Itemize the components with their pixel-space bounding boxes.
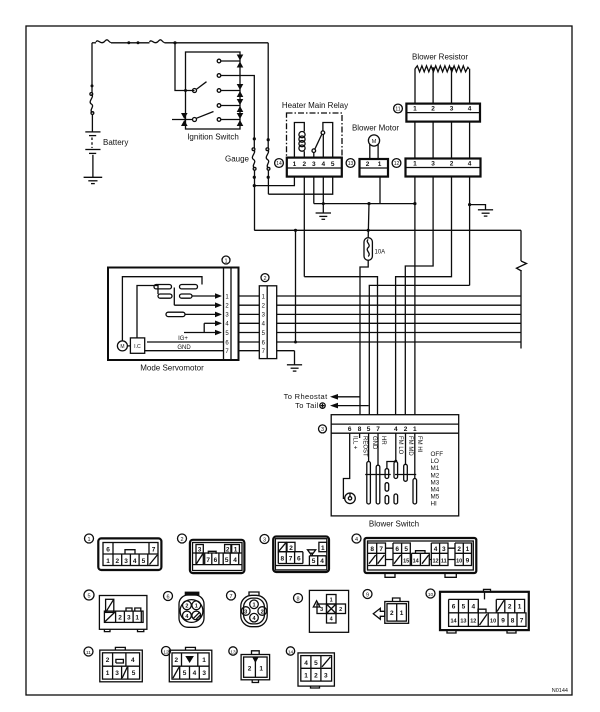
svg-text:M4: M4: [431, 487, 440, 494]
svg-text:1: 1: [224, 258, 227, 264]
svg-text:7: 7: [152, 547, 156, 554]
svg-text:3: 3: [124, 558, 128, 565]
svg-text:1: 1: [259, 666, 263, 673]
label circle connector 6: [164, 592, 173, 601]
switch pin stubs: [359, 433, 361, 438]
label circle 2: [261, 274, 269, 282]
switch arm row 5: [193, 118, 197, 122]
svg-text:5: 5: [314, 660, 318, 667]
servo arrow row4: [204, 322, 215, 324]
label circle 12: [392, 159, 401, 168]
svg-text:3: 3: [324, 673, 328, 680]
relay switch contact (pins 3-4-5): [313, 153, 315, 158]
svg-text:10: 10: [490, 619, 496, 625]
svg-text:7: 7: [229, 594, 232, 600]
connector 11 housing: [115, 647, 125, 650]
blower switch pin strip lines: [331, 424, 459, 433]
svg-text:1: 1: [106, 670, 110, 677]
label circle connector 3: [260, 535, 269, 544]
label circle connector 8: [294, 594, 303, 603]
svg-text:4: 4: [133, 558, 137, 565]
svg-text:4: 4: [468, 106, 472, 113]
wire motor junction down to fuse: [367, 204, 370, 238]
connector bowtie row 3: [237, 84, 244, 97]
svg-text:3: 3: [263, 538, 266, 544]
svg-text:12: 12: [394, 161, 400, 167]
wire gauge A to relay pin1: [254, 177, 294, 186]
blower motor M: [368, 135, 379, 146]
svg-text:5: 5: [225, 557, 229, 564]
blower motor leads: [370, 144, 378, 159]
svg-text:6: 6: [166, 595, 169, 601]
relay ground: [316, 212, 331, 214]
svg-text:2: 2: [180, 537, 183, 543]
svg-text:12: 12: [163, 650, 169, 656]
svg-text:2: 2: [115, 558, 119, 565]
svg-text:1: 1: [321, 545, 325, 552]
relay pin4 wire to ground: [322, 177, 324, 213]
main feed bus y230: [254, 229, 521, 231]
svg-text:11: 11: [441, 559, 447, 565]
svg-text:1: 1: [293, 161, 297, 168]
svg-text:4: 4: [233, 557, 237, 564]
resistor connector 11 box: [406, 104, 480, 122]
label circle 13: [346, 159, 355, 168]
label circle connector 2: [178, 534, 187, 543]
switch contact bars: [367, 462, 371, 505]
battery ground: [84, 176, 103, 178]
svg-text:2: 2: [106, 657, 110, 664]
svg-text:6: 6: [395, 546, 399, 553]
svg-text:M: M: [372, 139, 377, 145]
connector 12 housing: [186, 647, 196, 650]
svg-text:6: 6: [348, 426, 352, 433]
svg-text:2: 2: [248, 666, 252, 673]
svg-text:3: 3: [115, 670, 119, 677]
label circle connector 11: [84, 647, 93, 656]
svg-text:4: 4: [394, 426, 398, 433]
svg-text:6: 6: [214, 557, 218, 564]
svg-text:1: 1: [413, 426, 417, 433]
label circle connector 13: [229, 647, 237, 655]
svg-text:2: 2: [118, 614, 122, 621]
link rows 4-5: [203, 323, 205, 332]
motor pin1 wire down: [379, 177, 381, 204]
servo connector strip 1 lines: [224, 268, 232, 361]
resistor tap wires down to connector 11: [415, 69, 470, 104]
svg-text:4: 4: [471, 604, 475, 611]
svg-text:Gauge: Gauge: [225, 155, 250, 164]
svg-text:2: 2: [457, 546, 461, 553]
label circle connector 14: [286, 647, 294, 655]
blower resistor zigzag: [415, 66, 469, 72]
row 7 GND stub: [277, 350, 295, 352]
connector 4 housing: [365, 538, 477, 573]
svg-text:1: 1: [87, 537, 90, 543]
ignition switch contact row 5: [217, 118, 221, 122]
servo arrow row2: [174, 288, 215, 306]
svg-text:Ignition Switch: Ignition Switch: [187, 133, 239, 142]
svg-text:14: 14: [276, 161, 282, 167]
svg-text:7: 7: [376, 426, 380, 433]
svg-text:2: 2: [185, 604, 188, 610]
svg-text:7: 7: [379, 546, 383, 553]
svg-text:10: 10: [456, 559, 462, 565]
connector 14 housing: [298, 653, 334, 686]
ignition switch contact row 3: [217, 89, 221, 93]
svg-text:3: 3: [431, 161, 435, 168]
svg-text:Blower Motor: Blower Motor: [352, 124, 399, 133]
svg-text:4: 4: [434, 546, 438, 553]
svg-text:FM MD: FM MD: [407, 436, 413, 456]
resistor pin4 ground branch: [469, 177, 471, 286]
svg-text:14: 14: [413, 559, 420, 565]
battery feed wire vertical: [91, 43, 93, 93]
svg-text:1: 1: [202, 657, 206, 664]
svg-text:8: 8: [511, 618, 515, 625]
label circle 3: [319, 425, 327, 433]
label circle connector 1: [85, 534, 94, 543]
svg-text:2: 2: [366, 161, 370, 168]
svg-text:14: 14: [288, 650, 294, 656]
resistor connector 12 box: [406, 159, 481, 177]
illumination lamp wire: [343, 433, 349, 498]
svg-text:1: 1: [304, 673, 308, 680]
label circle 14: [275, 159, 284, 168]
heater main relay dash-dot box: [287, 113, 343, 158]
left stub wire with bowtie: [172, 119, 193, 121]
svg-text:15: 15: [403, 559, 409, 565]
wire gauge B to relay pin5: [268, 177, 332, 195]
svg-text:1: 1: [413, 161, 417, 168]
servo internal wiring: [122, 277, 202, 341]
svg-text:LO: LO: [431, 458, 440, 465]
gauge fuse B: [267, 43, 269, 149]
blower switch box: [331, 415, 459, 516]
svg-text:4: 4: [320, 558, 324, 565]
svg-text:4: 4: [321, 161, 325, 168]
relay pin3 wire to ground join: [313, 177, 315, 204]
ignition switch box: [186, 52, 241, 129]
svg-text:13: 13: [348, 161, 354, 167]
svg-text:OFF: OFF: [431, 451, 444, 458]
ignition switch feed wire: [175, 43, 195, 91]
svg-text:M5: M5: [431, 494, 440, 501]
svg-text:1: 1: [330, 598, 333, 604]
label circle connector 9: [363, 590, 372, 599]
svg-text:5: 5: [183, 670, 187, 677]
svg-text:2: 2: [431, 106, 435, 113]
battery symbol: [85, 131, 100, 133]
svg-text:1: 1: [234, 547, 238, 554]
svg-text:2: 2: [289, 545, 293, 552]
svg-text:HI: HI: [431, 501, 438, 508]
svg-text:8: 8: [370, 546, 374, 553]
label circle connector 7: [227, 591, 236, 600]
servo IG+ row: [147, 341, 224, 343]
svg-text:9: 9: [501, 618, 505, 625]
svg-text:6: 6: [297, 556, 301, 563]
svg-text:3: 3: [320, 607, 323, 613]
connector bowtie row 1: [237, 55, 244, 68]
bus wires rows 1-6 to right: [277, 296, 521, 342]
svg-text:12: 12: [432, 559, 438, 565]
label circle 11: [394, 104, 403, 113]
svg-text:5: 5: [331, 161, 335, 168]
servo arrow row5: [184, 332, 215, 334]
svg-text:4: 4: [468, 161, 472, 168]
connector 6 housing (round): [185, 592, 200, 596]
svg-text:3: 3: [202, 670, 206, 677]
svg-text:3: 3: [321, 427, 324, 433]
svg-text:FM LO: FM LO: [397, 436, 403, 455]
connector 9 housing: [393, 598, 401, 602]
svg-text:1: 1: [413, 106, 417, 113]
ground (resistor): [478, 209, 493, 211]
connector 5 housing: [99, 596, 146, 630]
label circle connector 4: [352, 534, 361, 543]
svg-text:13: 13: [230, 650, 236, 656]
svg-text:5: 5: [404, 546, 408, 553]
staircase wire 433 to switch pin2: [405, 177, 433, 415]
svg-text:8: 8: [358, 426, 362, 433]
wires connector 11 to 12: [415, 122, 470, 159]
svg-text:M: M: [120, 344, 124, 350]
svg-text:M1: M1: [431, 465, 440, 472]
connector 7 housing (oval): [249, 592, 259, 595]
svg-text:3: 3: [312, 161, 316, 168]
resistor pin1 wire straight down to switch pin1: [414, 177, 416, 415]
svg-text:REOST: REOST: [362, 436, 368, 457]
svg-text:5: 5: [132, 670, 136, 677]
svg-text:1: 1: [378, 161, 382, 168]
motor connector 13 box: [360, 159, 389, 177]
svg-text:8: 8: [296, 597, 299, 603]
switch arm row 3: [193, 89, 197, 93]
servo IC box: [130, 338, 144, 353]
svg-text:IG+: IG+: [178, 336, 188, 342]
svg-text:4: 4: [193, 670, 197, 677]
svg-text:Heater Main Relay: Heater Main Relay: [282, 101, 348, 110]
servo arrow row1: [192, 295, 215, 297]
svg-text:2: 2: [339, 607, 342, 613]
svg-text:3: 3: [198, 547, 202, 554]
connector 1 housing: [98, 538, 161, 570]
svg-text:10: 10: [428, 592, 434, 598]
gauge fuse A: [253, 137, 256, 140]
label circle connector 12: [162, 647, 171, 656]
svg-text:2: 2: [261, 609, 264, 615]
svg-text:I.C: I.C: [134, 344, 141, 350]
svg-text:6: 6: [106, 547, 110, 554]
svg-text:4: 4: [355, 537, 358, 543]
staircase wire 451 to switch pin4: [396, 177, 452, 415]
svg-text:2: 2: [263, 276, 266, 282]
svg-text:HR: HR: [380, 436, 386, 445]
svg-text:2: 2: [314, 673, 318, 680]
svg-text:Blower Switch: Blower Switch: [369, 520, 419, 529]
relay coil: [299, 132, 305, 138]
connector 13 housing: [252, 651, 260, 655]
svg-text:3: 3: [127, 614, 131, 621]
svg-text:13: 13: [460, 619, 466, 625]
svg-text:Blower Resistor: Blower Resistor: [412, 53, 468, 62]
servo motor symbol: [117, 341, 127, 351]
svg-text:5: 5: [367, 426, 371, 433]
ignition switch contact row 1: [217, 59, 221, 63]
svg-text:12: 12: [470, 619, 476, 625]
svg-text:Battery: Battery: [103, 138, 128, 147]
svg-text:5: 5: [312, 558, 316, 565]
svg-text:3: 3: [442, 546, 446, 553]
connector 3 housing: [273, 537, 329, 573]
svg-text:14: 14: [450, 619, 457, 625]
svg-text:N0144: N0144: [552, 688, 568, 694]
svg-text:1: 1: [466, 546, 470, 553]
svg-text:2: 2: [390, 610, 394, 617]
label circle 1: [222, 256, 230, 264]
svg-text:1: 1: [135, 614, 139, 621]
right bus vertical: [520, 230, 522, 261]
svg-text:2: 2: [508, 604, 512, 611]
svg-text:3: 3: [450, 106, 454, 113]
svg-text:1: 1: [195, 604, 198, 610]
illumination lamp: [345, 493, 356, 504]
svg-text:M2: M2: [431, 472, 440, 479]
svg-text:9: 9: [466, 558, 470, 565]
svg-text:ILL +: ILL +: [352, 436, 358, 450]
svg-text:6: 6: [452, 604, 456, 611]
servo GND row: [145, 350, 224, 352]
svg-text:Mode Servomotor: Mode Servomotor: [140, 364, 204, 373]
svg-text:4: 4: [131, 657, 135, 664]
label circle connector 5: [84, 590, 94, 600]
servo arrow row3: [186, 313, 216, 315]
relay coil branch (pins 1-2): [294, 123, 304, 158]
svg-text:GND: GND: [177, 345, 191, 351]
svg-text:2: 2: [226, 547, 230, 554]
ground bus wire y203: [314, 203, 415, 205]
svg-text:11: 11: [86, 650, 91, 656]
svg-text:M3: M3: [431, 479, 440, 486]
GND drop and ground under connector 2: [294, 351, 296, 365]
svg-text:7: 7: [289, 556, 293, 563]
fuse 10A capsule: [364, 238, 372, 261]
svg-text:1: 1: [518, 604, 522, 611]
crossover break symbol: [517, 261, 527, 271]
connector bowtie row 5: [237, 113, 244, 126]
svg-text:4: 4: [304, 660, 308, 667]
svg-text:9: 9: [366, 593, 369, 599]
svg-text:2: 2: [302, 161, 306, 168]
svg-text:FM HI: FM HI: [416, 436, 422, 453]
svg-text:2: 2: [450, 161, 454, 168]
label circle connector 10: [426, 589, 435, 598]
svg-text:2: 2: [404, 426, 408, 433]
connector 2 housing: [190, 540, 245, 573]
staircase wire 469 to switch pin5: [369, 285, 469, 414]
svg-text:3: 3: [244, 609, 247, 615]
IG+ feed drop: [295, 230, 297, 342]
connector 10 housing: [484, 589, 491, 591]
svg-text:2: 2: [174, 657, 178, 664]
wiper bars: [365, 474, 391, 476]
ignition switch contact row 2 (to gauge): [217, 74, 221, 78]
relay pin2 wire down: [303, 177, 305, 277]
svg-text:5: 5: [142, 558, 146, 565]
connector strip 2: [259, 286, 276, 359]
top feed wire with fusible links: [92, 42, 96, 44]
fuse output wire to switch pin8: [360, 260, 368, 414]
servo contact plate bars: [154, 285, 172, 289]
svg-text:1: 1: [400, 610, 404, 617]
connector 8 housing: [309, 590, 348, 632]
connector 9 arrow: [373, 608, 385, 619]
mode servomotor box: [108, 268, 239, 361]
svg-text:To Rheostat: To Rheostat: [284, 392, 328, 401]
svg-text:To Tail: To Tail: [295, 401, 319, 410]
svg-text:11: 11: [395, 107, 400, 113]
svg-text:8: 8: [280, 556, 284, 563]
svg-text:10A: 10A: [375, 250, 386, 256]
svg-text:GND: GND: [371, 436, 377, 450]
svg-text:7: 7: [520, 618, 524, 625]
relay pin2 staircase to switch pin7: [304, 277, 377, 415]
relay connector 14 box: [287, 158, 342, 177]
fusible link (battery column): [90, 95, 92, 113]
svg-text:1: 1: [106, 558, 110, 565]
harness wires strip1 to strip2: [239, 296, 260, 351]
connector bowtie row 4: [237, 99, 244, 112]
svg-text:5: 5: [87, 594, 90, 600]
ignition switch contact row 4: [217, 104, 221, 108]
svg-text:1: 1: [252, 603, 255, 609]
svg-text:7: 7: [206, 557, 210, 564]
svg-text:5: 5: [462, 604, 466, 611]
